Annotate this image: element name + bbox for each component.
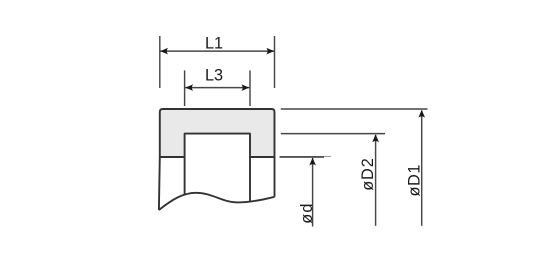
svg-text:L1: L1 — [205, 34, 223, 52]
L3 arrow right — [241, 84, 249, 91]
L1 arrow left — [160, 48, 168, 55]
right leg outer wire — [274, 157, 276, 197]
od arrowhead — [309, 158, 316, 166]
L1 dimension line — [160, 50, 274, 52]
svg-text:øD1: øD1 — [406, 164, 424, 197]
L3 dimension line — [185, 87, 249, 89]
oD2 arrow line — [375, 135, 377, 226]
od arrow line — [312, 158, 314, 227]
L1 arrow right — [266, 48, 274, 55]
right leg inner wire — [249, 157, 251, 202]
body: gray cap cross-section (outer U shape) — [160, 109, 275, 157]
break wave line — [159, 193, 275, 210]
leader line oD2 level — [281, 133, 385, 135]
oD1 arrowhead — [418, 110, 425, 118]
L3 arrow left — [185, 84, 193, 91]
svg-text:øD2: øD2 — [359, 157, 377, 190]
L3 extension line right — [249, 70, 251, 106]
L3 extension line left — [184, 70, 186, 106]
leader line oD1 level — [281, 108, 428, 110]
svg-text:ød: ød — [298, 202, 316, 223]
oD1 arrow line — [421, 111, 423, 226]
L1 extension line left — [159, 36, 161, 88]
L1 extension line right — [274, 36, 276, 88]
svg-text:L3: L3 — [205, 66, 223, 84]
leader line od level — [280, 156, 325, 158]
oD2 arrowhead — [372, 134, 379, 142]
left leg outer wire — [158, 157, 161, 210]
leader line od light tail — [324, 156, 331, 158]
left leg inner wire — [184, 157, 186, 195]
